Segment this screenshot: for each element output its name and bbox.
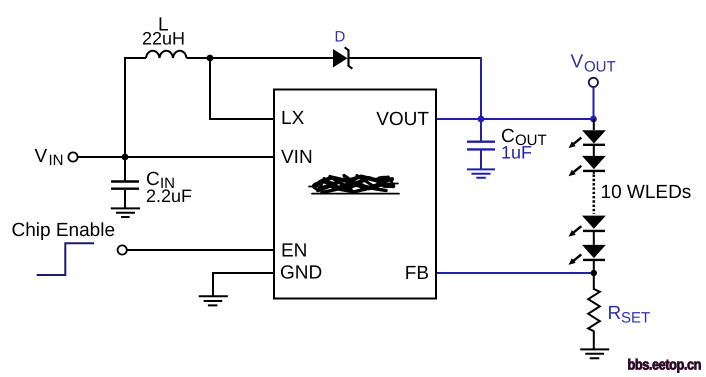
svg-text:OUT: OUT bbox=[584, 59, 616, 76]
svg-text:EN: EN bbox=[281, 241, 307, 262]
svg-text:bbs.eetop.cn: bbs.eetop.cn bbox=[628, 355, 702, 372]
svg-text:V: V bbox=[35, 146, 48, 167]
svg-text:GND: GND bbox=[280, 263, 322, 284]
svg-text:2.2uF: 2.2uF bbox=[146, 186, 192, 206]
svg-text:R: R bbox=[608, 303, 622, 324]
svg-text:SET: SET bbox=[621, 310, 650, 327]
svg-text:VIN: VIN bbox=[281, 147, 313, 168]
svg-text:10 WLEDs: 10 WLEDs bbox=[601, 182, 692, 203]
svg-text:D: D bbox=[335, 29, 346, 46]
svg-text:Chip Enable: Chip Enable bbox=[12, 220, 116, 241]
svg-text:LX: LX bbox=[281, 108, 305, 129]
svg-text:22uH: 22uH bbox=[142, 29, 185, 49]
svg-text:1uF: 1uF bbox=[501, 143, 532, 163]
svg-text:FB: FB bbox=[405, 263, 429, 284]
svg-text:IN: IN bbox=[49, 152, 64, 169]
svg-text:V: V bbox=[571, 52, 584, 73]
svg-text:VOUT: VOUT bbox=[376, 109, 429, 130]
